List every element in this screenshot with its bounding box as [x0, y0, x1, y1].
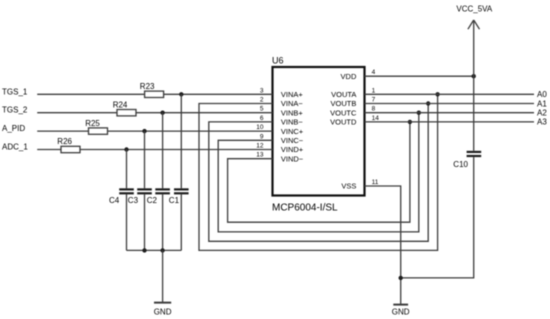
svg-text:VINB−: VINB− [281, 118, 304, 127]
svg-text:VIND+: VIND+ [281, 145, 304, 154]
svg-text:12: 12 [256, 143, 264, 150]
capacitor C3 [128, 188, 152, 205]
junction VSS ground rail [399, 276, 403, 280]
junction on GND bus at C3 [142, 248, 146, 252]
svg-text:VINB+: VINB+ [281, 108, 304, 117]
svg-text:GND: GND [392, 308, 410, 317]
svg-text:VIND−: VIND− [281, 154, 304, 163]
capacitor C10 [453, 151, 481, 169]
svg-text:R24: R24 [113, 100, 128, 109]
wire C4 to GND bus [126, 194, 128, 250]
wire VCC vertical [473, 20, 475, 151]
junction on TGS_2 net at C2 [160, 111, 164, 115]
svg-text:VINC−: VINC− [281, 136, 304, 145]
svg-text:VOUTB: VOUTB [331, 99, 357, 108]
svg-text:A_PID: A_PID [2, 124, 25, 133]
svg-text:C2: C2 [147, 196, 158, 205]
svg-text:7: 7 [372, 97, 376, 104]
svg-text:C4: C4 [109, 196, 120, 205]
wire R26 to pin 12 [80, 149, 273, 151]
svg-text:10: 10 [256, 124, 264, 131]
capacitor C2 [147, 188, 170, 205]
wire GND stem left [162, 250, 164, 302]
svg-text:6: 6 [260, 115, 264, 122]
wire feedback VOUTC to VINC- [218, 113, 419, 232]
resistor R23 [140, 82, 164, 98]
wire VOUTD to A3 [365, 121, 535, 123]
svg-text:C10: C10 [453, 160, 468, 169]
resistor R25 [85, 119, 107, 135]
svg-text:VINA−: VINA− [281, 99, 304, 108]
wire R24 to pin 5 [136, 112, 273, 114]
svg-text:C1: C1 [169, 196, 180, 205]
svg-text:VDD: VDD [341, 72, 357, 81]
wire VOUTA to A0 [365, 93, 535, 95]
wire feedback VOUTD to VIND- [228, 122, 410, 222]
junction on GND bus at C2 [160, 248, 164, 252]
svg-text:VCC_5VA: VCC_5VA [456, 5, 493, 14]
capacitor C1 [169, 188, 189, 205]
svg-text:4: 4 [372, 69, 376, 76]
junction on TGS_1 net at C1 [179, 92, 183, 96]
svg-text:C3: C3 [128, 196, 139, 205]
svg-text:9: 9 [260, 133, 264, 140]
wire VDD to VCC [365, 75, 474, 77]
svg-text:R23: R23 [140, 82, 155, 91]
svg-text:VOUTC: VOUTC [330, 108, 357, 117]
svg-text:A3: A3 [537, 118, 547, 127]
svg-text:A0: A0 [537, 90, 547, 99]
junction VOUTB [426, 101, 430, 105]
ground GND right [392, 305, 410, 317]
wire C4 riser [126, 150, 128, 189]
wire R23 to pin 3 [164, 93, 273, 95]
capacitor C4 [109, 188, 134, 205]
svg-text:VOUTD: VOUTD [330, 118, 357, 127]
svg-text:5: 5 [260, 106, 264, 113]
svg-text:MCP6004-I/SL: MCP6004-I/SL [272, 203, 338, 214]
resistor R24 [113, 100, 136, 116]
svg-text:R25: R25 [85, 119, 100, 128]
wire C1 to GND bus [180, 194, 182, 250]
junction VOUTC [417, 111, 421, 115]
svg-text:TGS_2: TGS_2 [2, 106, 28, 115]
resistor R26 [57, 137, 80, 153]
svg-text:TGS_1: TGS_1 [2, 87, 28, 96]
junction VOUTD [408, 120, 412, 124]
wire C2 to GND bus [162, 194, 164, 250]
svg-text:VOUTA: VOUTA [331, 90, 356, 99]
svg-text:8: 8 [372, 106, 376, 113]
wire VSS to GND [365, 186, 401, 304]
wire C2 riser [162, 113, 164, 189]
wire ADC_1 to R26 [37, 149, 61, 151]
wire TGS_2 to R24 [37, 112, 117, 114]
wire A_PID to R25 [37, 130, 88, 132]
svg-text:2: 2 [260, 97, 264, 104]
junction on A_PID net at C3 [142, 129, 146, 133]
wire feedback VOUTA to VINA- [199, 94, 438, 250]
wire C10 to ground rail [401, 157, 474, 278]
ground GND left [154, 303, 172, 317]
svg-text:GND: GND [154, 308, 172, 317]
svg-text:R26: R26 [57, 137, 72, 146]
svg-text:11: 11 [372, 179, 379, 186]
wire C3 to GND bus [144, 194, 146, 250]
wire R25 to pin 10 [108, 130, 273, 132]
svg-text:13: 13 [256, 152, 264, 159]
junction on ADC_1 net at C4 [124, 147, 128, 151]
svg-text:A2: A2 [537, 109, 547, 118]
wire feedback VOUTB to VINB- [209, 104, 428, 242]
wire C1 riser [180, 94, 182, 188]
svg-text:VSS: VSS [341, 182, 356, 191]
svg-text:3: 3 [260, 87, 264, 94]
wire TGS_1 to R23 [37, 93, 144, 95]
svg-text:VINC+: VINC+ [281, 127, 304, 136]
svg-text:1: 1 [372, 87, 376, 94]
svg-text:ADC_1: ADC_1 [2, 143, 28, 152]
wire VOUTC to A2 [365, 112, 535, 114]
power VCC_5VA [456, 5, 493, 30]
svg-text:14: 14 [372, 115, 380, 122]
junction VDD at VCC [472, 74, 476, 78]
svg-text:A1: A1 [537, 99, 547, 108]
wire C3 riser [144, 131, 146, 188]
op-amp U6 [272, 56, 365, 214]
svg-text:U6: U6 [272, 56, 284, 66]
wire GND bus under capacitors [127, 249, 182, 251]
junction VOUTA [435, 92, 439, 96]
wire VOUTB to A1 [365, 103, 535, 105]
svg-text:VINA+: VINA+ [281, 90, 304, 99]
